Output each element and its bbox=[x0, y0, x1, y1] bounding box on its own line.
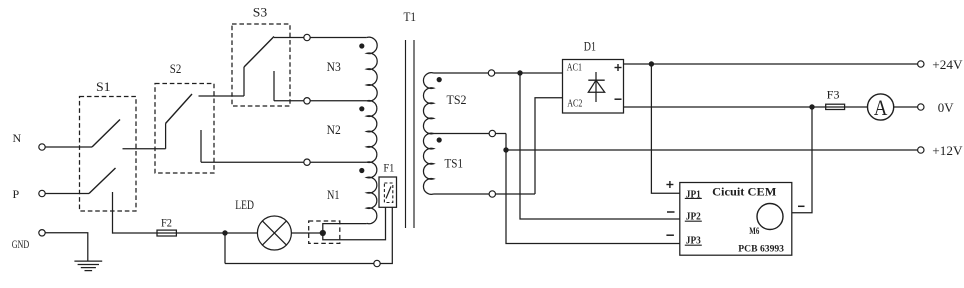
junction jumper node bbox=[320, 230, 326, 236]
wire S2 throw2 to tap N1 bbox=[201, 161, 304, 163]
svg-text:Cicuit CEM: Cicuit CEM bbox=[712, 187, 776, 199]
svg-text:GND: GND bbox=[12, 237, 30, 251]
wire TS midpoint bbox=[434, 133, 507, 135]
switch S1 pole-a blade bbox=[92, 120, 120, 148]
ground earth symbol bbox=[74, 261, 102, 271]
mount hole M6 bbox=[749, 204, 783, 237]
winding N2 bbox=[327, 100, 377, 162]
node GND terminal bbox=[12, 230, 46, 251]
rectifier D1 plus pin bbox=[615, 64, 622, 71]
JP2 minus sign bbox=[667, 211, 675, 213]
fuse F3 bbox=[826, 89, 845, 109]
wire F1 return bbox=[225, 207, 392, 263]
node 0V terminal bbox=[918, 101, 954, 115]
node P terminal bbox=[13, 187, 46, 201]
node bottom return terminal bbox=[374, 260, 380, 266]
wire jumper to N1 bottom bbox=[323, 224, 367, 233]
wire +24V rail bbox=[624, 63, 919, 65]
wire TS1 bottom bbox=[434, 193, 536, 195]
wire TS2 top to AC1 bbox=[434, 72, 563, 74]
rectifier D1 box bbox=[563, 40, 624, 113]
wire tap2 to winding bbox=[310, 100, 367, 102]
svg-text:S2: S2 bbox=[170, 62, 182, 76]
wire LED to jumper bbox=[291, 232, 322, 234]
junction 12V tap bbox=[503, 147, 508, 152]
junction bottom-rail bbox=[222, 230, 227, 235]
wire ammeter to 0V terminal bbox=[894, 106, 918, 108]
switch S2 blade bbox=[166, 94, 193, 124]
wire N to S2 bbox=[123, 148, 166, 150]
node +12V terminal bbox=[918, 144, 963, 158]
wire 0V rail to F3 bbox=[624, 106, 826, 108]
wire midpoint to JP3 bbox=[506, 150, 680, 244]
pin JP1 bbox=[685, 189, 702, 200]
switch S3 throw2 contact bbox=[273, 71, 275, 101]
winding N3 bbox=[327, 37, 378, 101]
JP3 minus sign bbox=[666, 234, 674, 236]
winding TS1 polarity dot bbox=[437, 137, 442, 142]
svg-text:+24V: +24V bbox=[932, 58, 962, 72]
node N terminal bbox=[13, 131, 46, 150]
diode inside D1 bbox=[588, 72, 604, 102]
node primary tap1 terminal bbox=[304, 34, 310, 40]
node TS2 top terminal bbox=[488, 70, 494, 76]
switch S1 enclosure bbox=[80, 80, 137, 211]
wire jumper to F1 bbox=[323, 207, 386, 239]
wire N input bbox=[45, 146, 92, 148]
wire midpoint down to 12V bbox=[505, 134, 507, 151]
wire tap3 to winding bbox=[310, 161, 367, 163]
transformer T1 label bbox=[404, 10, 417, 24]
jumper enclosure bbox=[309, 221, 340, 243]
transformer core bbox=[406, 40, 415, 228]
switch S3 enclosure bbox=[232, 5, 290, 106]
wire +12V rail bbox=[506, 149, 918, 151]
svg-text:PCB 63993: PCB 63993 bbox=[738, 245, 784, 255]
svg-text:F2: F2 bbox=[161, 215, 172, 229]
wire CEM minus to 0V bbox=[792, 107, 812, 213]
winding N1 bbox=[327, 162, 377, 224]
rectifier D1 pin labels bbox=[567, 62, 583, 109]
CEM right minus sign bbox=[798, 205, 805, 207]
winding TS1 bbox=[423, 133, 463, 194]
svg-text:F3: F3 bbox=[827, 89, 840, 101]
svg-text:LED: LED bbox=[235, 198, 254, 212]
lamp LED bbox=[235, 198, 291, 250]
ammeter A bbox=[868, 94, 894, 120]
wire F2 to LED bbox=[176, 232, 257, 234]
JP1 plus sign bbox=[666, 181, 673, 188]
winding TS2 bbox=[423, 73, 433, 134]
wire TS1 bottom to AC2 bbox=[535, 98, 563, 194]
svg-text:P: P bbox=[13, 187, 20, 201]
node TS1 bottom terminal bbox=[489, 191, 495, 197]
node TS midpoint terminal bbox=[489, 130, 495, 136]
wire S3 throw1 bbox=[274, 37, 304, 39]
switch S2 enclosure bbox=[155, 62, 214, 173]
wire AC1 junction to JP2 bbox=[520, 73, 680, 219]
rectifier D1 minus pin bbox=[615, 98, 622, 100]
wire S3 throw2 bbox=[274, 100, 304, 102]
pin JP3 bbox=[685, 235, 702, 246]
fuse F2 bbox=[157, 215, 176, 236]
svg-text:A: A bbox=[874, 95, 888, 120]
svg-text:N3: N3 bbox=[327, 60, 341, 74]
svg-text:S1: S1 bbox=[96, 80, 111, 94]
svg-text:AC2: AC2 bbox=[567, 98, 582, 109]
node primary tap2 terminal bbox=[304, 98, 310, 104]
junction AC1 line bbox=[517, 70, 522, 75]
node +24V terminal bbox=[918, 58, 963, 72]
winding TS2 polarity dot bbox=[437, 77, 442, 82]
wire S1b to F2 bbox=[113, 232, 158, 234]
svg-text:D1: D1 bbox=[584, 40, 596, 54]
junction +24V bbox=[649, 61, 654, 66]
module CEM title bbox=[712, 187, 776, 199]
svg-text:M6: M6 bbox=[749, 226, 759, 236]
module PCB number bbox=[738, 245, 784, 255]
wire JP1 feed bbox=[651, 64, 679, 193]
svg-text:TS2: TS2 bbox=[447, 93, 467, 107]
winding N2 polarity dot bbox=[359, 106, 364, 111]
switch S3 pivot riser bbox=[243, 67, 245, 96]
wire S1b output down bbox=[112, 192, 114, 234]
svg-text:TS1: TS1 bbox=[445, 157, 464, 171]
module CEM box bbox=[680, 183, 792, 256]
svg-text:N1: N1 bbox=[327, 188, 340, 202]
svg-text:F1: F1 bbox=[383, 160, 394, 174]
svg-text:0V: 0V bbox=[938, 101, 954, 115]
winding TS2 label bbox=[447, 93, 467, 107]
wire P input bbox=[45, 193, 89, 195]
switch S2 throw2 contact bbox=[200, 130, 202, 162]
svg-text:S3: S3 bbox=[253, 5, 267, 19]
svg-text:N: N bbox=[13, 131, 22, 145]
pin JP2 bbox=[685, 211, 702, 222]
svg-text:T1: T1 bbox=[404, 10, 417, 24]
junction 0V bbox=[809, 104, 814, 109]
wire tap1 to winding bbox=[310, 37, 367, 39]
wire GND bbox=[45, 233, 88, 261]
winding N1 polarity dot bbox=[359, 168, 364, 173]
svg-text:+12V: +12V bbox=[932, 144, 962, 158]
svg-text:AC1: AC1 bbox=[567, 62, 582, 73]
wire S2 throw1 to S3 bbox=[199, 95, 245, 97]
switch S3 blade bbox=[244, 37, 274, 68]
winding N3 polarity dot bbox=[359, 43, 364, 48]
wire F3 to ammeter bbox=[845, 106, 868, 108]
node primary tap3 terminal bbox=[304, 159, 310, 165]
switch S2 pivot riser bbox=[165, 124, 167, 149]
switch S1 pole-b blade bbox=[89, 168, 116, 194]
svg-text:N2: N2 bbox=[327, 123, 341, 137]
fuse F1 bbox=[379, 160, 397, 207]
wire return up to junction bbox=[224, 233, 226, 264]
